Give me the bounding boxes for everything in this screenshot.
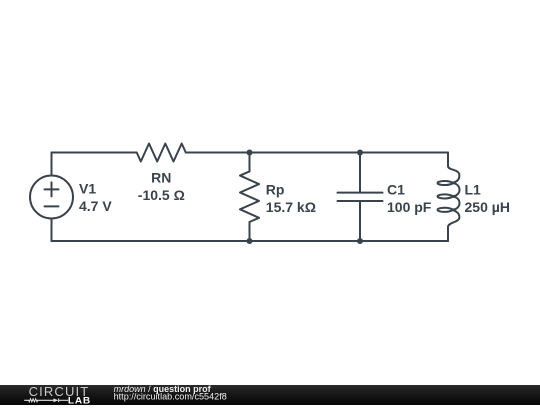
capacitor C1 — [338, 153, 383, 242]
svg-text:100 pF: 100 pF — [387, 199, 432, 215]
svg-text:http://circuitlab.com/c5542f8: http://circuitlab.com/c5542f8 — [114, 392, 227, 402]
inductor L1 — [438, 153, 460, 242]
svg-text:4.7 V: 4.7 V — [79, 198, 112, 214]
svg-text:15.7 kΩ: 15.7 kΩ — [266, 199, 316, 215]
wire: bottom rail — [52, 240, 449, 242]
svg-text:Rp: Rp — [266, 182, 285, 198]
resistor Rp — [240, 153, 259, 242]
node: C1 junction top — [357, 150, 363, 156]
voltage source V1 — [30, 176, 73, 219]
svg-text:C1: C1 — [387, 182, 405, 198]
node: Rp junction bottom — [247, 238, 253, 244]
CircuitLab logo diode — [53, 398, 58, 402]
CircuitLab logo wire glyph — [24, 399, 68, 403]
wire: left rail bottom segment — [51, 219, 53, 242]
svg-text:L1: L1 — [465, 182, 482, 198]
wire: top rail left of RN — [52, 152, 137, 154]
resistor RN — [137, 144, 186, 162]
node: RN/Rp junction top — [247, 150, 253, 156]
wire: top rail right of RN — [186, 152, 448, 154]
svg-text:RN: RN — [151, 170, 171, 186]
svg-text:LAB: LAB — [68, 396, 91, 405]
footer bar — [0, 385, 540, 405]
svg-text:250 µH: 250 µH — [465, 199, 510, 215]
wire: left rail top segment — [51, 153, 53, 176]
svg-text:V1: V1 — [79, 181, 96, 197]
svg-text:-10.5 Ω: -10.5 Ω — [138, 187, 185, 203]
node: C1 junction bottom — [357, 238, 363, 244]
